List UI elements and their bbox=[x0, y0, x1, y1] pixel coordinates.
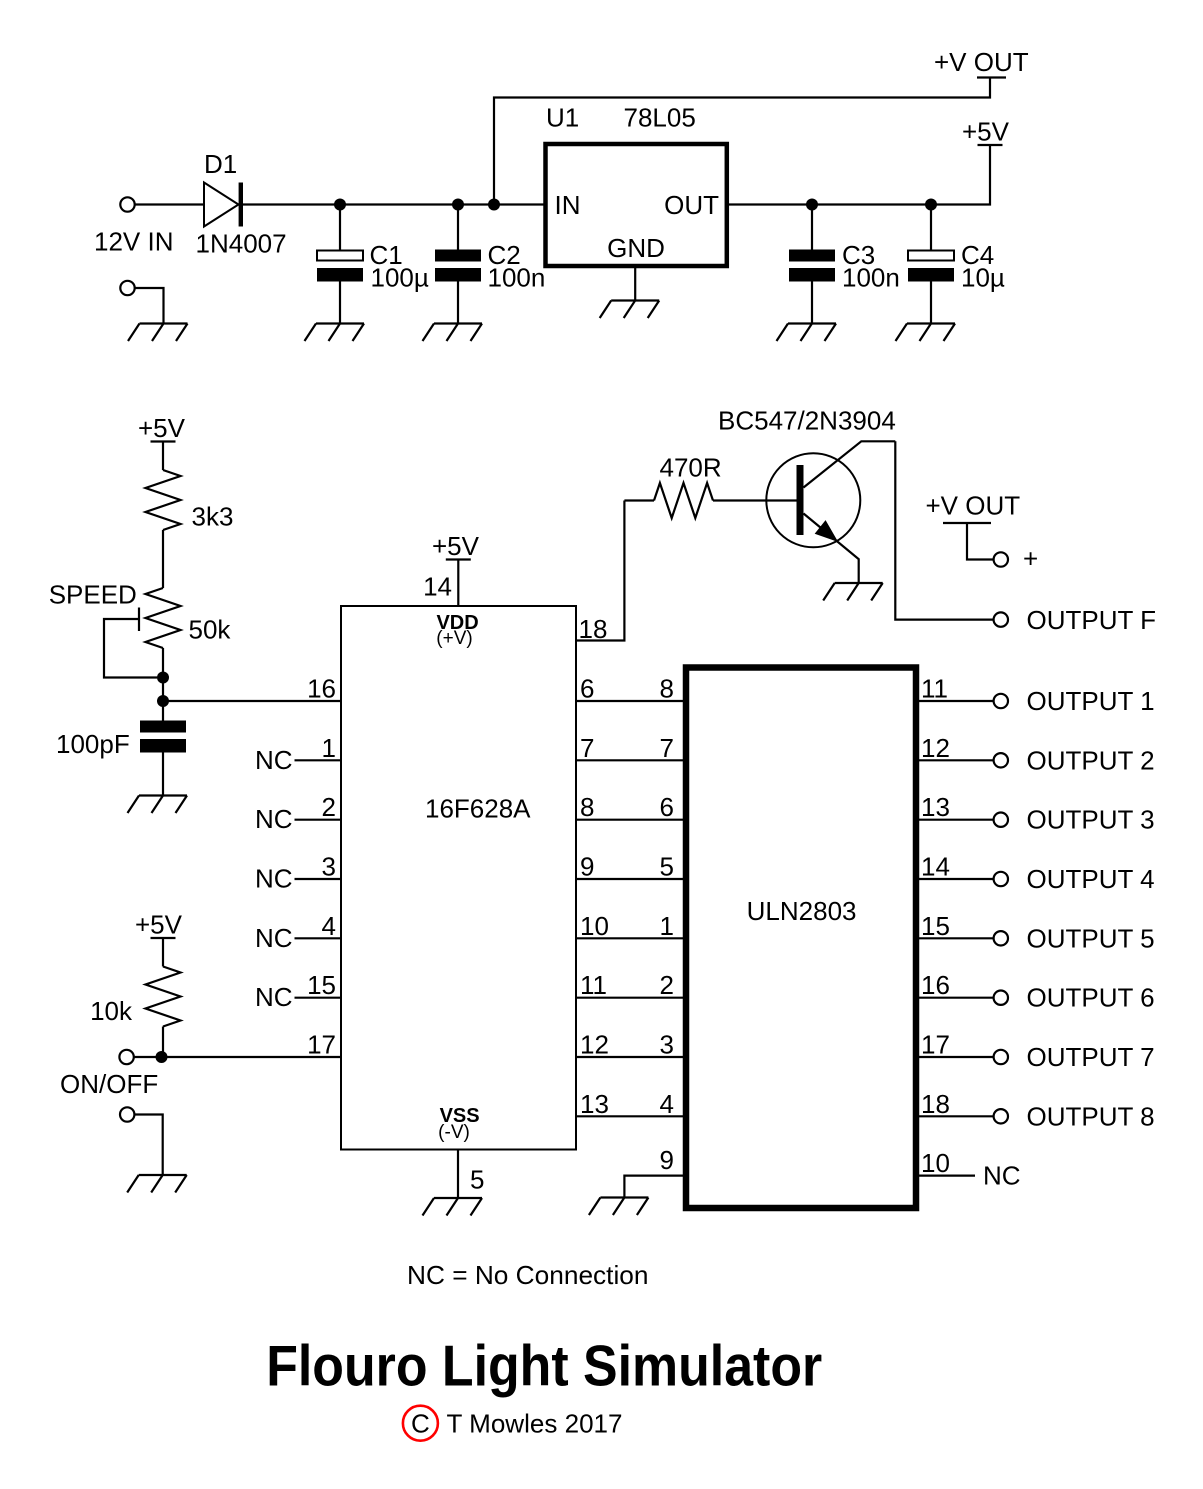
wire C1 bottom to ground bbox=[339, 282, 341, 324]
wire C3 bottom to ground bbox=[811, 282, 813, 324]
svg-text:11: 11 bbox=[580, 970, 607, 1000]
svg-text:NC: NC bbox=[983, 1161, 1021, 1191]
svg-text:14: 14 bbox=[921, 852, 950, 882]
svg-text:NC: NC bbox=[255, 745, 293, 775]
svg-text:C: C bbox=[411, 1409, 430, 1439]
svg-text:4: 4 bbox=[660, 1089, 674, 1119]
resistor 10k bbox=[146, 967, 181, 1027]
terminal OUTPUT 2 bbox=[994, 753, 1008, 767]
wire +V OUT riser bbox=[494, 78, 990, 204]
wire 16F pin 13 to ULN pin 4 bbox=[576, 1115, 683, 1117]
svg-text:13: 13 bbox=[921, 792, 950, 822]
regulator U1 box bbox=[546, 144, 727, 266]
wire C2 bottom to ground bbox=[457, 282, 459, 324]
wire 16F pin 10 to ULN pin 1 bbox=[576, 937, 683, 939]
terminal OUTPUT 5 bbox=[994, 931, 1008, 945]
IC U2 16F628A box bbox=[341, 606, 576, 1150]
ground under U1 bbox=[600, 301, 660, 319]
svg-text:6: 6 bbox=[660, 792, 674, 822]
svg-text:14: 14 bbox=[423, 572, 452, 602]
svg-text:1: 1 bbox=[322, 733, 336, 763]
svg-text:NC: NC bbox=[255, 864, 293, 894]
junction node pin16/cap bbox=[157, 695, 169, 707]
svg-text:ON/OFF: ON/OFF bbox=[60, 1069, 158, 1099]
wire ULN pin 16 to OUTPUT 6 bbox=[919, 997, 994, 999]
wire 470R to base bbox=[713, 499, 797, 501]
svg-text:+5V: +5V bbox=[135, 910, 183, 940]
svg-text:10: 10 bbox=[921, 1148, 950, 1178]
junction node C2 bbox=[452, 199, 464, 211]
wire pin 18 riser bbox=[576, 501, 624, 641]
svg-text:D1: D1 bbox=[204, 149, 237, 179]
wire 16F pin 11 to ULN pin 2 bbox=[576, 997, 683, 999]
svg-text:NC: NC bbox=[255, 923, 293, 953]
svg-text:3: 3 bbox=[322, 852, 336, 882]
power symbol +V OUT (aux) bbox=[926, 491, 1021, 524]
svg-text:5: 5 bbox=[660, 852, 674, 882]
power symbol +5V (3k3) bbox=[138, 413, 186, 443]
svg-text:18: 18 bbox=[579, 614, 608, 644]
wire 16F pin 9 to ULN pin 5 bbox=[576, 878, 683, 880]
svg-text:OUTPUT 2: OUTPUT 2 bbox=[1027, 745, 1155, 775]
wire ULN pin 12 to OUTPUT 2 bbox=[919, 759, 994, 761]
terminal 12V IN (-) bbox=[120, 281, 134, 295]
svg-text:12: 12 bbox=[580, 1030, 609, 1060]
svg-text:9: 9 bbox=[580, 852, 594, 882]
ground under C2 bbox=[423, 324, 483, 342]
wire +V OUT to + terminal bbox=[967, 523, 993, 560]
svg-text:3k3: 3k3 bbox=[192, 502, 234, 532]
svg-text:10µ: 10µ bbox=[961, 263, 1005, 293]
svg-text:OUTPUT 7: OUTPUT 7 bbox=[1027, 1042, 1155, 1072]
junction node +V OUT takeoff bbox=[488, 199, 500, 211]
svg-text:NC = No Connection: NC = No Connection bbox=[407, 1260, 649, 1290]
terminal ON/OFF (a) bbox=[119, 1050, 133, 1064]
svg-text:U1: U1 bbox=[546, 103, 579, 133]
wire ULN pin 14 to OUTPUT 4 bbox=[919, 878, 994, 880]
wire 10k to pin 17 node bbox=[162, 1027, 164, 1058]
wire NC stub pin 2 bbox=[295, 819, 342, 821]
svg-text:16F628A: 16F628A bbox=[425, 794, 531, 824]
svg-text:+5V: +5V bbox=[138, 413, 186, 443]
junction node C4 bbox=[925, 199, 937, 211]
svg-text:100pF: 100pF bbox=[56, 729, 130, 759]
wire 50k bottom to 100pF bbox=[162, 648, 164, 721]
ground under emitter bbox=[823, 583, 883, 601]
wire 16F pin 12 to ULN pin 3 bbox=[576, 1056, 683, 1058]
svg-text:100n: 100n bbox=[842, 263, 900, 293]
terminal OUTPUT 7 bbox=[994, 1050, 1008, 1064]
svg-text:15: 15 bbox=[307, 970, 336, 1000]
copyright symbol bbox=[403, 1406, 438, 1441]
capacitor C4 plates (polarized) bbox=[908, 251, 954, 282]
svg-text:7: 7 bbox=[580, 733, 594, 763]
ground 12V return bbox=[128, 324, 188, 342]
svg-text:OUTPUT 5: OUTPUT 5 bbox=[1027, 923, 1155, 953]
svg-text:10: 10 bbox=[580, 911, 609, 941]
wire collector to OUTPUT F bbox=[895, 441, 993, 619]
wire +5V to 3k3 bbox=[162, 442, 164, 471]
terminal OUTPUT F bbox=[994, 612, 1008, 626]
junction wiper to track bottom bbox=[157, 672, 169, 684]
wire VSS pin 5 to ground bbox=[457, 1150, 459, 1199]
terminal 12V IN (+) bbox=[120, 197, 134, 211]
svg-text:78L05: 78L05 bbox=[624, 103, 696, 133]
svg-text:(-V): (-V) bbox=[438, 1122, 470, 1143]
terminal + bbox=[994, 552, 1008, 566]
svg-text:17: 17 bbox=[921, 1030, 950, 1060]
wire 12V return to ground bbox=[135, 288, 164, 324]
svg-text:NC: NC bbox=[255, 982, 293, 1012]
terminal OUTPUT 3 bbox=[994, 813, 1008, 827]
wire ULN pin 18 to OUTPUT 8 bbox=[919, 1115, 994, 1117]
svg-text:10k: 10k bbox=[90, 996, 133, 1026]
svg-text:+V OUT: +V OUT bbox=[934, 47, 1029, 77]
ground under C4 bbox=[896, 324, 956, 342]
svg-text:16: 16 bbox=[307, 674, 336, 704]
wire ULN pin 9 to ground bbox=[624, 1176, 683, 1198]
junction node C1 bbox=[334, 199, 346, 211]
svg-text:17: 17 bbox=[307, 1030, 336, 1060]
svg-text:5: 5 bbox=[470, 1165, 484, 1195]
ground under ULN pin 9 bbox=[589, 1198, 649, 1216]
ground under 100pF bbox=[128, 796, 188, 814]
svg-text:13: 13 bbox=[580, 1089, 609, 1119]
power symbol +5V (10k) bbox=[135, 910, 183, 940]
terminal OUTPUT 6 bbox=[994, 991, 1008, 1005]
wire ULN pin 17 to OUTPUT 7 bbox=[919, 1056, 994, 1058]
wire node to C2 top bbox=[457, 205, 459, 251]
svg-text:4: 4 bbox=[322, 911, 336, 941]
wire ON/OFF to pin 17 bbox=[134, 1056, 341, 1058]
wire node to C4 top bbox=[930, 205, 932, 251]
svg-text:18: 18 bbox=[921, 1089, 950, 1119]
svg-text:1N4007: 1N4007 bbox=[196, 229, 287, 259]
diode D1 1N4007 bbox=[204, 183, 243, 227]
resistor 470R bbox=[654, 483, 713, 518]
svg-text:OUTPUT F: OUTPUT F bbox=[1027, 605, 1157, 635]
svg-text:OUTPUT 8: OUTPUT 8 bbox=[1027, 1101, 1155, 1131]
svg-text:1: 1 bbox=[660, 911, 674, 941]
wire NC stub pin 4 bbox=[295, 937, 342, 939]
wire ON/OFF return to ground bbox=[134, 1115, 162, 1176]
svg-text:ULN2803: ULN2803 bbox=[747, 896, 857, 926]
capacitor C1 plates (polarized) bbox=[317, 251, 363, 282]
svg-text:470R: 470R bbox=[660, 453, 722, 483]
wire 16F pin 8 to ULN pin 6 bbox=[576, 819, 683, 821]
terminal ON/OFF (b) bbox=[120, 1107, 134, 1121]
wire +5V to 10k bbox=[162, 938, 164, 967]
svg-text:15: 15 bbox=[921, 911, 950, 941]
svg-text:2: 2 bbox=[660, 970, 674, 1000]
svg-text:(+V): (+V) bbox=[436, 628, 472, 649]
wire ULN pin 11 to OUTPUT 1 bbox=[919, 700, 994, 702]
wire 16F pin 7 to ULN pin 7 bbox=[576, 759, 683, 761]
wire ULN pin 13 to OUTPUT 3 bbox=[919, 819, 994, 821]
wire C4 bottom to ground bbox=[930, 282, 932, 324]
svg-text:OUTPUT 1: OUTPUT 1 bbox=[1027, 686, 1155, 716]
svg-text:GND: GND bbox=[607, 233, 665, 263]
terminal OUTPUT 4 bbox=[994, 872, 1008, 886]
svg-text:8: 8 bbox=[580, 792, 594, 822]
svg-text:12V IN: 12V IN bbox=[94, 227, 174, 257]
capacitor 100pF plates bbox=[140, 721, 186, 753]
svg-text:OUTPUT 3: OUTPUT 3 bbox=[1027, 805, 1155, 835]
svg-text:9: 9 bbox=[660, 1145, 674, 1175]
svg-text:+V OUT: +V OUT bbox=[926, 491, 1021, 521]
svg-text:+5V: +5V bbox=[432, 531, 480, 561]
wire NC stub pin 1 bbox=[295, 759, 342, 761]
svg-text:11: 11 bbox=[921, 674, 948, 704]
svg-text:BC547/2N3904: BC547/2N3904 bbox=[718, 406, 896, 436]
svg-text:Flouro Light Simulator: Flouro Light Simulator bbox=[266, 1335, 822, 1399]
ground under VSS bbox=[423, 1198, 483, 1216]
ground under ON/OFF bbox=[127, 1175, 187, 1193]
svg-text:2: 2 bbox=[322, 792, 336, 822]
svg-text:6: 6 bbox=[580, 674, 594, 704]
wire NC stub pin 3 bbox=[295, 878, 342, 880]
svg-text:OUTPUT 6: OUTPUT 6 bbox=[1027, 983, 1155, 1013]
resistor 3k3 bbox=[146, 470, 181, 530]
wire riser to 470R bbox=[624, 499, 654, 501]
capacitor C2 plates bbox=[435, 250, 481, 282]
junction node C3 bbox=[806, 199, 818, 211]
terminal OUTPUT 8 bbox=[994, 1109, 1008, 1123]
power symbol +5V (VDD) bbox=[432, 531, 480, 561]
wire ULN pin 15 to OUTPUT 5 bbox=[919, 937, 994, 939]
svg-text:50k: 50k bbox=[189, 615, 232, 645]
wire 12V input to diode anode bbox=[135, 203, 204, 205]
capacitor C3 plates bbox=[789, 250, 835, 282]
wire node to pin 16 bbox=[163, 700, 341, 702]
wire node to C3 top bbox=[811, 205, 813, 251]
svg-text:NC: NC bbox=[255, 804, 293, 834]
svg-text:OUT: OUT bbox=[664, 190, 719, 220]
wire NC stub pin 15 bbox=[295, 997, 342, 999]
svg-text:100µ: 100µ bbox=[371, 263, 429, 293]
wire ULN pin 10 NC stub bbox=[919, 1174, 975, 1176]
ground under C1 bbox=[305, 324, 365, 342]
svg-text:+5V: +5V bbox=[962, 117, 1010, 147]
wire U1 OUT to +5V rail bbox=[727, 145, 990, 204]
wire 16F pin 6 to ULN pin 8 bbox=[576, 700, 683, 702]
wire node to C1 top bbox=[339, 205, 341, 251]
wire U1 GND pin bbox=[634, 266, 636, 300]
svg-text:IN: IN bbox=[555, 190, 581, 220]
ground under C3 bbox=[777, 324, 837, 342]
svg-text:12: 12 bbox=[921, 733, 950, 763]
transistor Q1 BC547/2N3904 bbox=[766, 441, 895, 583]
svg-text:OUTPUT 4: OUTPUT 4 bbox=[1027, 864, 1155, 894]
svg-text:T Mowles 2017: T Mowles 2017 bbox=[447, 1409, 623, 1439]
svg-text:+: + bbox=[1023, 544, 1038, 574]
svg-text:7: 7 bbox=[660, 733, 674, 763]
svg-text:8: 8 bbox=[660, 674, 674, 704]
power symbol +5V (top right) bbox=[962, 117, 1010, 147]
potentiometer wiper arm bbox=[104, 608, 157, 678]
svg-text:16: 16 bbox=[921, 970, 950, 1000]
power symbol +V OUT (raw supply) bbox=[934, 47, 1029, 78]
wire 3k3 to 50k bbox=[162, 530, 164, 588]
wire +5V to VDD pin 14 bbox=[457, 560, 459, 607]
potentiometer 50k track bbox=[146, 588, 181, 648]
svg-text:SPEED: SPEED bbox=[49, 580, 137, 610]
junction node pin17/10k bbox=[156, 1051, 168, 1063]
terminal OUTPUT 1 bbox=[994, 694, 1008, 708]
svg-text:3: 3 bbox=[660, 1030, 674, 1060]
wire 100pF to ground bbox=[162, 751, 164, 796]
IC U3 ULN2803 box bbox=[686, 668, 916, 1209]
wire diode cathode to U1 IN bbox=[243, 203, 546, 205]
svg-text:100n: 100n bbox=[488, 263, 546, 293]
